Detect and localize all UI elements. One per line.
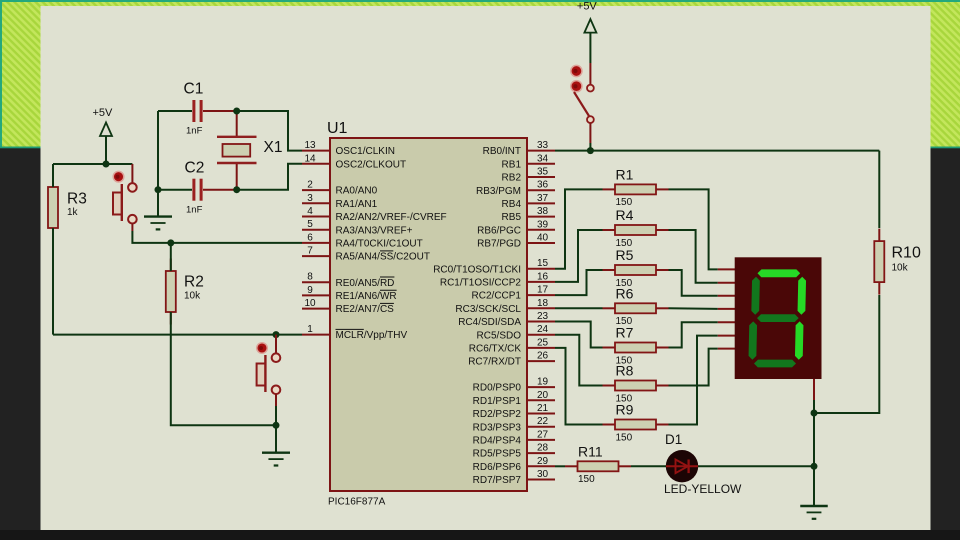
junction +5V rail bbox=[103, 161, 110, 168]
svg-text:RE2/AN7/CS: RE2/AN7/CS bbox=[336, 304, 395, 315]
svg-text:10: 10 bbox=[304, 298, 316, 309]
svg-text:RB6/PGC: RB6/PGC bbox=[477, 225, 521, 236]
chip pin 16 RC1/T1OSI/CCP2 bbox=[440, 271, 555, 288]
wire MCLR rail bbox=[53, 334, 302, 336]
7-segment display body bbox=[718, 257, 822, 413]
chip pin 38 RB5 bbox=[502, 206, 555, 223]
power +5V (left) bbox=[93, 107, 114, 136]
wire R2 bottom crossing MCLR to ground rail bbox=[171, 312, 276, 425]
crystal X1 bbox=[217, 111, 282, 190]
resistor R1 bbox=[603, 166, 669, 208]
chip pin 23 RC4/SDI/SDA bbox=[458, 311, 555, 328]
chip pin 36 RB3/PGM bbox=[476, 180, 555, 197]
wire display common down bbox=[813, 413, 815, 466]
switch SW3 top lead bbox=[589, 63, 591, 85]
svg-text:7: 7 bbox=[307, 246, 313, 257]
chip pin 4 RA2/AN2/VREF-/CVREF bbox=[302, 206, 447, 223]
svg-text:+5V: +5V bbox=[577, 1, 598, 13]
svg-text:RC1/T1OSI/CCP2: RC1/T1OSI/CCP2 bbox=[440, 278, 522, 289]
power +5V (top right) bbox=[577, 1, 598, 33]
wire R10 bottom to display common bbox=[814, 295, 879, 413]
svg-text:RC3/SCK/SCL: RC3/SCK/SCL bbox=[455, 304, 521, 315]
resistor R7 bbox=[603, 325, 669, 367]
svg-text:R6: R6 bbox=[616, 285, 634, 301]
wire LED net to ground bbox=[813, 466, 815, 506]
switch SW3 state dot upper bbox=[571, 65, 582, 76]
wire R6 to display seg d bbox=[669, 307, 718, 310]
svg-text:PIC16F877A: PIC16F877A bbox=[328, 497, 386, 508]
resistor R6 bbox=[603, 285, 669, 327]
switch SW3 bottom lead bbox=[589, 123, 591, 143]
svg-text:35: 35 bbox=[537, 167, 549, 178]
junction RA4 net / R2 bbox=[167, 239, 174, 246]
svg-text:29: 29 bbox=[537, 456, 549, 467]
wire R11 to LED bbox=[631, 465, 666, 467]
wire SW2 to ground bbox=[275, 406, 277, 425]
capacitor C1 bbox=[158, 81, 237, 137]
button SW1 top lead bbox=[131, 164, 133, 183]
wire C1 to OSC1 pin 13 bbox=[237, 111, 302, 151]
svg-text:1nF: 1nF bbox=[186, 205, 203, 216]
striped border top band bbox=[0, 2, 960, 7]
svg-text:RA5/AN4/SS/C2OUT: RA5/AN4/SS/C2OUT bbox=[336, 252, 430, 263]
svg-text:28: 28 bbox=[537, 443, 549, 454]
teal edge under left band bbox=[0, 147, 41, 149]
button SW1 state dot bbox=[113, 171, 124, 182]
wire R1 to display seg a bbox=[669, 189, 718, 269]
resistor R10 bbox=[874, 229, 921, 295]
svg-text:RC5/SDO: RC5/SDO bbox=[477, 330, 522, 341]
ground symbol (reset) bbox=[262, 453, 290, 466]
svg-text:39: 39 bbox=[537, 219, 549, 230]
switch SW3 (SPST) bbox=[574, 85, 594, 123]
svg-text:RE1/AN6/WR: RE1/AN6/WR bbox=[336, 291, 397, 302]
chip pin 1 MCLR/Vpp/THV bbox=[302, 324, 408, 341]
svg-text:C1: C1 bbox=[184, 81, 204, 98]
push button SW1 bbox=[113, 183, 137, 223]
ground symbol (display/LED) bbox=[800, 506, 828, 519]
svg-text:27: 27 bbox=[537, 429, 549, 440]
resistor R8 bbox=[603, 363, 669, 405]
svg-text:RC7/RX/DT: RC7/RX/DT bbox=[468, 357, 521, 368]
svg-text:RC6/TX/CK: RC6/TX/CK bbox=[469, 344, 522, 355]
striped border left band bbox=[2, 2, 41, 148]
svg-text:10k: 10k bbox=[184, 291, 201, 302]
chip pin 26 RC7/RX/DT bbox=[468, 351, 555, 368]
wire RC6 pin25 to R9 bbox=[555, 348, 603, 425]
chip pin 19 RD0/PSP0 bbox=[473, 377, 555, 394]
striped border right band bbox=[931, 2, 960, 148]
svg-text:8: 8 bbox=[307, 272, 313, 283]
svg-text:18: 18 bbox=[537, 298, 549, 309]
capacitor C2 bbox=[158, 160, 237, 216]
wire R7 to display seg e bbox=[669, 322, 718, 347]
wire RC3 pin18 to R6 bbox=[555, 307, 603, 309]
svg-text:R4: R4 bbox=[616, 207, 634, 223]
push button SW2 bbox=[257, 353, 281, 394]
junction X1 top / C1 bbox=[233, 108, 240, 115]
svg-text:RD0/PSP0: RD0/PSP0 bbox=[473, 383, 522, 394]
switch SW3 state dot lower bbox=[571, 81, 582, 92]
svg-text:22: 22 bbox=[537, 416, 549, 427]
svg-text:RA4/T0CKI/C1OUT: RA4/T0CKI/C1OUT bbox=[336, 239, 423, 250]
svg-text:19: 19 bbox=[537, 377, 549, 388]
chip pin 6 RA4/T0CKI/C1OUT bbox=[302, 232, 423, 249]
junction display common / R10 bbox=[811, 410, 818, 417]
svg-text:OSC2/CLKOUT: OSC2/CLKOUT bbox=[336, 159, 407, 170]
svg-text:RA1/AN1: RA1/AN1 bbox=[336, 199, 378, 210]
chip pin 18 RC3/SCK/SCL bbox=[455, 298, 555, 315]
svg-text:36: 36 bbox=[537, 180, 549, 191]
junction LED net bbox=[811, 463, 818, 470]
wire RD6 pin29 to R11 bbox=[555, 465, 565, 467]
svg-text:26: 26 bbox=[537, 351, 549, 362]
svg-text:RC4/SDI/SDA: RC4/SDI/SDA bbox=[458, 317, 521, 328]
svg-text:R8: R8 bbox=[616, 363, 634, 379]
junction C2 left bbox=[155, 186, 162, 193]
chip pin 33 RB0/INT bbox=[483, 140, 555, 157]
svg-text:1: 1 bbox=[307, 324, 313, 335]
wire switch to RB0 rail bbox=[589, 143, 591, 151]
teal frame left edge bbox=[0, 0, 2, 148]
chip pin 40 RB7/PGD bbox=[477, 233, 555, 250]
chip pin 21 RD2/PSP2 bbox=[473, 403, 555, 420]
wire LED to ground net bbox=[698, 465, 814, 467]
svg-text:RB4: RB4 bbox=[502, 199, 522, 210]
wire R4 to display seg b bbox=[669, 230, 718, 283]
chip pin 8 RE0/AN5/RD bbox=[302, 272, 394, 289]
svg-text:RD1/PSP1: RD1/PSP1 bbox=[473, 396, 522, 407]
svg-text:13: 13 bbox=[304, 140, 316, 151]
wire RC4 pin23 to R7 bbox=[555, 322, 603, 348]
svg-text:9: 9 bbox=[307, 285, 313, 296]
svg-text:10k: 10k bbox=[892, 263, 909, 274]
svg-text:1k: 1k bbox=[67, 207, 79, 218]
svg-text:RB5: RB5 bbox=[502, 212, 522, 223]
svg-text:34: 34 bbox=[537, 153, 549, 164]
wire +5V to switch bbox=[589, 33, 591, 63]
chip pin 39 RB6/PGC bbox=[477, 219, 555, 236]
LED D1 bbox=[664, 432, 742, 496]
wire RC0 pin15 to R1 bbox=[555, 189, 603, 268]
svg-text:OSC1/CLKIN: OSC1/CLKIN bbox=[336, 146, 395, 157]
svg-text:40: 40 bbox=[537, 233, 549, 244]
teal edge under right band bbox=[931, 147, 960, 149]
svg-text:RB7/PGD: RB7/PGD bbox=[477, 239, 521, 250]
chip pin 3 RA1/AN1 bbox=[302, 193, 378, 210]
svg-text:LED-YELLOW: LED-YELLOW bbox=[664, 482, 742, 496]
chip pin 27 RD4/PSP4 bbox=[473, 429, 555, 446]
wire RC1 pin16 to R4 bbox=[555, 230, 603, 282]
chip pin 17 RC2/CCP1 bbox=[472, 285, 555, 302]
svg-text:21: 21 bbox=[537, 403, 549, 414]
svg-text:R1: R1 bbox=[616, 166, 634, 182]
svg-text:33: 33 bbox=[537, 140, 549, 151]
wire R2 top lead bbox=[170, 243, 172, 271]
chip pin 9 RE1/AN6/WR bbox=[302, 285, 397, 302]
wire +5V arrow stem bbox=[105, 136, 107, 164]
svg-text:1nF: 1nF bbox=[186, 126, 203, 137]
svg-text:MCLR/Vpp/THV: MCLR/Vpp/THV bbox=[336, 330, 408, 341]
svg-text:RD7/PSP7: RD7/PSP7 bbox=[473, 475, 522, 486]
svg-text:RC0/T1OSO/T1CKI: RC0/T1OSO/T1CKI bbox=[433, 264, 521, 275]
svg-text:14: 14 bbox=[304, 153, 316, 164]
chip pin 28 RD5/PSP5 bbox=[473, 443, 555, 460]
wire C2 to OSC2 pin 14 bbox=[237, 164, 302, 190]
svg-text:RA3/AN3/VREF+: RA3/AN3/VREF+ bbox=[336, 225, 413, 236]
svg-text:37: 37 bbox=[537, 193, 549, 204]
chip pin 15 RC0/T1OSO/T1CKI bbox=[433, 258, 555, 275]
wire R10 column upper bbox=[878, 151, 880, 228]
svg-text:RB2: RB2 bbox=[502, 173, 522, 184]
junction MCLR / SW2 bbox=[273, 331, 280, 338]
microcontroller U1 body bbox=[330, 138, 527, 491]
svg-text:17: 17 bbox=[537, 285, 549, 296]
chip pin 22 RD3/PSP3 bbox=[473, 416, 555, 433]
button SW2 bottom lead bbox=[275, 394, 277, 406]
svg-text:RD3/PSP3: RD3/PSP3 bbox=[473, 422, 522, 433]
wire R8 to display seg g bbox=[669, 349, 718, 386]
junction ground rail bbox=[273, 422, 280, 429]
svg-text:RB1: RB1 bbox=[502, 159, 522, 170]
wire R5 to display seg c bbox=[669, 270, 718, 296]
wire R9 to display seg f bbox=[669, 336, 718, 425]
chip pin 7 RA5/AN4/SS/C2OUT bbox=[302, 246, 430, 263]
svg-text:R11: R11 bbox=[578, 443, 603, 459]
resistor R9 bbox=[603, 402, 669, 444]
wire R3 top lead to rail bbox=[52, 164, 54, 187]
button SW2 state dot bbox=[257, 343, 268, 354]
wire RB0 pin33 to R10 column bbox=[555, 150, 879, 152]
wire SW1 to RA4 pin 6 bbox=[132, 231, 302, 243]
teal frame top edge bbox=[0, 0, 960, 2]
svg-text:R10: R10 bbox=[892, 245, 921, 262]
wire RC5 pin24 to R8 bbox=[555, 335, 603, 386]
chip pin 24 RC5/SDO bbox=[477, 324, 555, 341]
svg-text:30: 30 bbox=[537, 469, 549, 480]
resistor R11 bbox=[565, 443, 631, 485]
ground symbol (oscillator) bbox=[144, 217, 172, 230]
button SW2 top lead bbox=[275, 335, 277, 354]
svg-text:23: 23 bbox=[537, 311, 549, 322]
svg-text:RD2/PSP2: RD2/PSP2 bbox=[473, 409, 522, 420]
svg-text:U1: U1 bbox=[327, 120, 348, 137]
svg-text:R9: R9 bbox=[616, 402, 634, 418]
svg-text:X1: X1 bbox=[264, 139, 283, 156]
resistor R4 bbox=[603, 207, 669, 249]
wire RC2 pin17 to R5 bbox=[555, 270, 603, 295]
chip pin 30 RD7/PSP7 bbox=[473, 469, 555, 486]
chip pin 5 RA3/AN3/VREF+ bbox=[302, 219, 413, 236]
svg-text:25: 25 bbox=[537, 337, 549, 348]
wire C1-C2 left bus bbox=[157, 111, 159, 217]
svg-text:RB3/PGM: RB3/PGM bbox=[476, 186, 521, 197]
svg-text:4: 4 bbox=[307, 206, 313, 217]
svg-text:+5V: +5V bbox=[93, 107, 114, 119]
button SW1 bottom lead bbox=[131, 224, 133, 232]
resistor R2 bbox=[166, 259, 204, 325]
chip pin 35 RB2 bbox=[502, 167, 555, 184]
svg-text:6: 6 bbox=[307, 232, 313, 243]
chip pin 37 RB4 bbox=[502, 193, 555, 210]
svg-text:16: 16 bbox=[537, 271, 549, 282]
svg-text:RB0/INT: RB0/INT bbox=[483, 146, 521, 157]
chip pin 29 RD6/PSP6 bbox=[473, 456, 555, 473]
svg-text:RE0/AN5/RD: RE0/AN5/RD bbox=[336, 278, 395, 289]
svg-text:RD6/PSP6: RD6/PSP6 bbox=[473, 462, 522, 473]
svg-text:15: 15 bbox=[537, 258, 549, 269]
svg-text:R3: R3 bbox=[67, 191, 87, 208]
wire ground stem (reset) bbox=[275, 425, 277, 452]
svg-text:20: 20 bbox=[537, 390, 549, 401]
chip pin 25 RC6/TX/CK bbox=[469, 337, 555, 354]
wire +5V rail horizontal bbox=[53, 163, 132, 165]
svg-text:RA0/AN0: RA0/AN0 bbox=[336, 186, 378, 197]
svg-text:RD4/PSP4: RD4/PSP4 bbox=[473, 436, 522, 447]
chip pin 14 OSC2/CLKOUT bbox=[302, 153, 406, 170]
svg-text:3: 3 bbox=[307, 193, 313, 204]
dark strip below canvas bbox=[0, 530, 960, 540]
wire R3 bottom to MCLR rail bbox=[52, 228, 54, 335]
svg-text:RC2/CCP1: RC2/CCP1 bbox=[472, 291, 522, 302]
svg-text:5: 5 bbox=[307, 219, 313, 230]
svg-text:24: 24 bbox=[537, 324, 549, 335]
svg-text:D1: D1 bbox=[665, 432, 682, 447]
junction RB0 / switch bbox=[587, 147, 594, 154]
svg-text:150: 150 bbox=[578, 474, 595, 485]
svg-text:38: 38 bbox=[537, 206, 549, 217]
svg-text:RA2/AN2/VREF-/CVREF: RA2/AN2/VREF-/CVREF bbox=[336, 212, 447, 223]
svg-text:C2: C2 bbox=[185, 160, 205, 177]
svg-text:R2: R2 bbox=[184, 274, 204, 291]
svg-text:R5: R5 bbox=[616, 247, 634, 263]
svg-text:2: 2 bbox=[307, 180, 313, 191]
chip pin 20 RD1/PSP1 bbox=[473, 390, 555, 407]
svg-text:R7: R7 bbox=[616, 325, 634, 341]
chip pin 10 RE2/AN7/CS bbox=[302, 298, 394, 315]
junction X1 bottom / C2 bbox=[233, 186, 240, 193]
chip pin 13 OSC1/CLKIN bbox=[302, 140, 395, 157]
chip pin 34 RB1 bbox=[502, 153, 555, 170]
7-segment digit segments bbox=[748, 269, 806, 367]
resistor R5 bbox=[603, 247, 669, 289]
svg-text:150: 150 bbox=[616, 432, 633, 443]
chip pin 2 RA0/AN0 bbox=[302, 180, 378, 197]
resistor R3 bbox=[48, 175, 87, 241]
svg-text:RD5/PSP5: RD5/PSP5 bbox=[473, 449, 522, 460]
